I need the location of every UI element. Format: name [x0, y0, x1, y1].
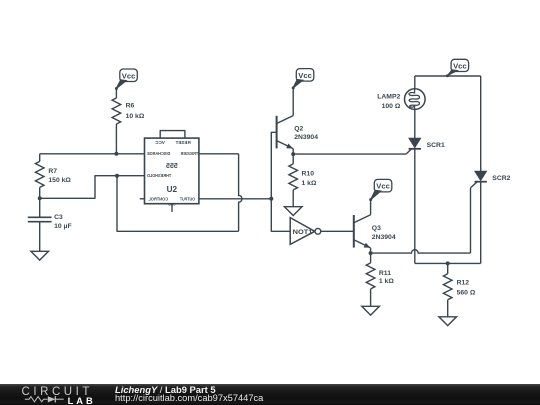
svg-text:CONTROL: CONTROL [148, 197, 168, 202]
svg-text:Vcc: Vcc [298, 71, 312, 80]
svg-text:2N3904: 2N3904 [294, 134, 318, 141]
svg-text:NOT1: NOT1 [293, 229, 313, 236]
svg-text:GND: GND [168, 202, 176, 207]
svg-text:560 Ω: 560 Ω [457, 289, 476, 296]
svg-text:2N3904: 2N3904 [372, 234, 396, 241]
svg-text:SCR2: SCR2 [492, 175, 510, 182]
svg-text:R11: R11 [379, 270, 391, 277]
svg-text:Vcc: Vcc [122, 71, 136, 80]
svg-text:1 kΩ: 1 kΩ [379, 278, 394, 285]
svg-text:R6: R6 [126, 103, 135, 110]
svg-text:Q2: Q2 [294, 126, 303, 133]
svg-text:R10: R10 [302, 171, 315, 178]
svg-text:100 Ω: 100 Ω [382, 103, 401, 110]
svg-text:10 kΩ: 10 kΩ [126, 113, 145, 120]
svg-text:DISCHARGE: DISCHARGE [147, 151, 170, 156]
svg-text:Vcc: Vcc [376, 182, 390, 191]
svg-text:RESET: RESET [175, 140, 190, 145]
svg-text:LAMP2: LAMP2 [377, 94, 400, 101]
svg-text:THRESHOLD: THRESHOLD [147, 173, 171, 178]
svg-text:Vcc: Vcc [453, 61, 467, 70]
svg-text:VCC: VCC [154, 140, 165, 145]
svg-text:SCR1: SCR1 [427, 142, 445, 149]
svg-text:R12: R12 [457, 280, 470, 287]
svg-text:Q3: Q3 [372, 225, 381, 232]
svg-text:TRIGGER: TRIGGER [180, 151, 198, 156]
svg-text:U2: U2 [167, 185, 178, 194]
svg-text:555: 555 [166, 161, 178, 170]
svg-text:1 kΩ: 1 kΩ [302, 180, 317, 187]
svg-text:OUTPUT: OUTPUT [180, 197, 195, 202]
